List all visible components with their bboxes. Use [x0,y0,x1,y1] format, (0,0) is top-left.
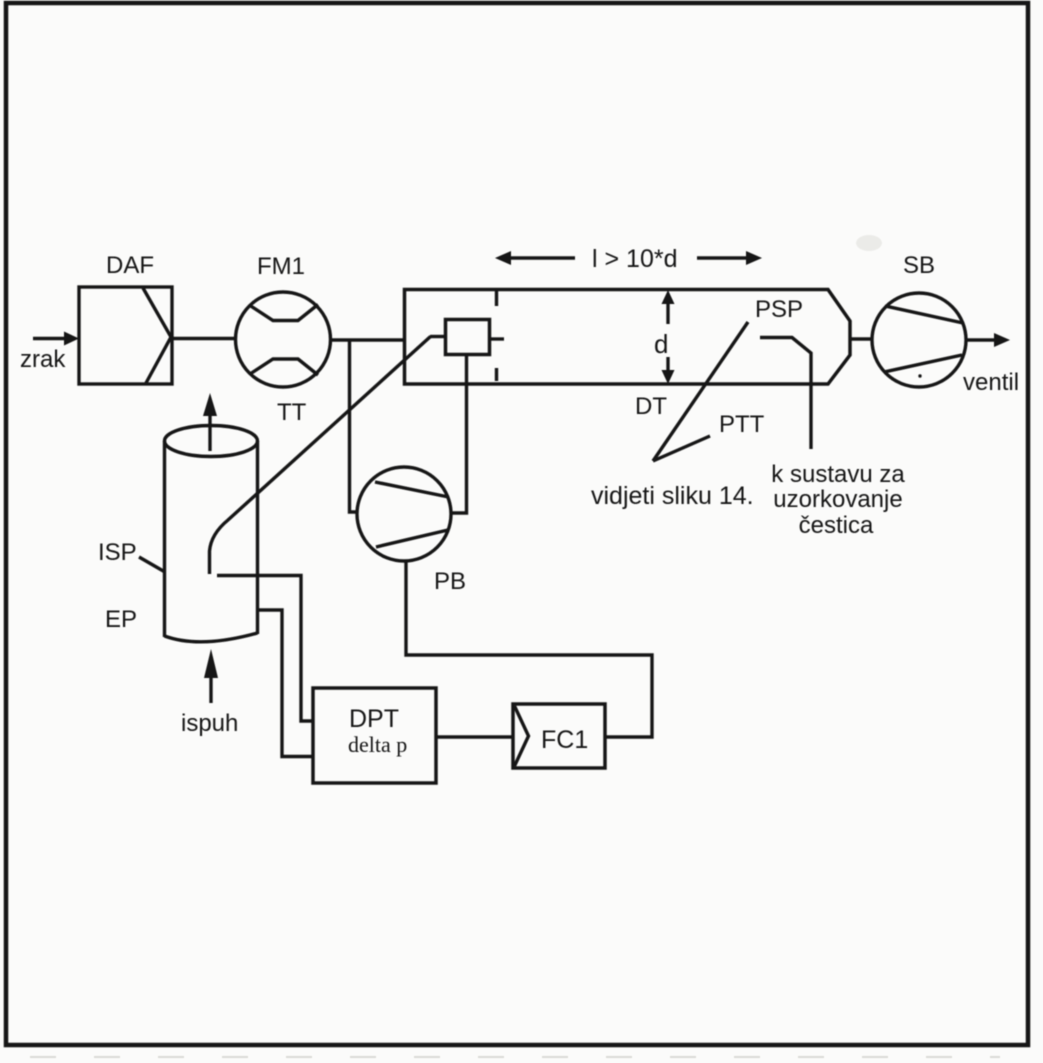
scan smudge [856,235,882,251]
blower PB [357,467,451,561]
svg-text:d: d [654,329,668,359]
dashed mixing plane [495,291,498,306]
svg-text:zrak: zrak [20,346,66,373]
wire FM1 to tunnel [331,338,405,342]
wire junction down to blower PB [350,340,359,512]
wire tunnel to SB [850,337,871,341]
wire box right stub [490,337,505,340]
mixing box in tunnel [446,320,490,355]
svg-text:DT: DT [635,393,667,420]
svg-text:ispuh: ispuh [181,710,238,737]
dimension arrow d [662,290,675,304]
wire EP wall tap to DPT [258,610,314,757]
ispuh inlet arrow [209,676,212,703]
svg-text:TT: TT [277,399,307,426]
leader lines to vidjeti sliku 14. [653,322,748,461]
svg-text:FM1: FM1 [257,253,305,280]
blower SB [872,293,966,387]
wire DAF to FM1 [172,337,236,341]
sampling probe PSP [760,338,811,450]
svg-text:l > 10*d: l > 10*d [592,245,678,273]
leader line ISP [139,557,165,572]
svg-text:EP: EP [105,606,137,633]
scan artifact bottom [30,1056,1000,1058]
wire transfer line from ISP probe [210,337,431,575]
svg-text:FC1: FC1 [541,726,588,754]
EP top outlet arrow [208,414,211,451]
svg-text:delta p: delta p [348,732,407,757]
dimension l>10*d left arrow [495,251,511,265]
svg-text:PTT: PTT [719,411,765,438]
svg-text:uzorkovanje: uzorkovanje [773,486,902,513]
svg-text:čestica: čestica [799,512,874,539]
svg-text:PSP: PSP [755,296,803,323]
svg-text:k sustavu za: k sustavu za [771,461,905,488]
wire zrak inlet arrow [33,337,67,341]
svg-text:ISP: ISP [98,539,137,566]
flow meter FM1 [236,292,331,387]
svg-text:PB: PB [434,568,466,595]
wire box down to PB [452,355,467,513]
dilution tunnel DT body [405,290,851,385]
svg-text:SB: SB [903,252,935,279]
svg-text:vidjeti sliku 14.: vidjeti sliku 14. [591,482,754,510]
svg-text:ventil: ventil [963,369,1019,396]
wire probe static tap to DPT [217,576,313,722]
exhaust pipe EP cylinder [165,426,258,457]
filter DAF [79,287,172,384]
wire PB to FC1 loop [406,561,652,737]
svg-text:DPT: DPT [349,705,399,733]
controller FC1 [513,704,605,768]
dimension l>10*d right arrow [697,256,749,260]
wire SB outlet arrow [966,338,996,342]
svg-text:DAF: DAF [106,252,154,279]
wire box left stub [430,335,446,338]
transducer DPT [313,688,436,783]
wire DPT to FC1 [436,735,513,739]
